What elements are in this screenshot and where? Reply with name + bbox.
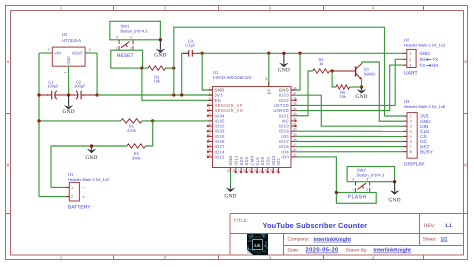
junction dot battery vertical R1 (37, 119, 40, 122)
svg-text:TITLE:: TITLE: (234, 218, 249, 223)
svg-text:3: 3 (89, 48, 91, 52)
wire IO0 to FLASH loop (295, 157, 336, 193)
svg-text:IO2: IO2 (276, 157, 281, 165)
svg-text:39: 39 (265, 77, 269, 81)
wire R3 to 3V3 vertical (166, 67, 174, 69)
svg-text:100µF: 100µF (74, 84, 86, 89)
frame column numbers (60, 5, 375, 260)
ground symbol below C1 C2 junction (68, 95, 70, 106)
svg-text:S8050: S8050 (364, 71, 376, 76)
svg-text:2: 2 (71, 195, 73, 199)
wire RESET down to ESP32 EN (142, 68, 213, 100)
svg-text:InterlinkKnight: InterlinkKnight (314, 237, 352, 243)
svg-text:5: 5 (410, 135, 412, 139)
svg-text:1k: 1k (319, 61, 323, 66)
resistor R1 (121, 119, 142, 123)
wire H1 pin2 to battery plus vertical (39, 196, 65, 198)
U1 left pin names (215, 88, 243, 160)
svg-text:GND: GND (420, 51, 431, 56)
svg-text:4: 4 (352, 178, 354, 182)
svg-text:GND: GND (62, 109, 74, 115)
wire 3V3 feed to H3 pin1 (385, 115, 404, 117)
wire Q1 emitter down (361, 79, 363, 87)
svg-text:IO0: IO0 (281, 154, 289, 159)
junction dot ESP32 pin38 tap (298, 52, 301, 55)
svg-text:1/1: 1/1 (441, 237, 448, 243)
svg-text:GND: GND (85, 155, 97, 161)
svg-text:U2: U2 (62, 32, 68, 37)
capacitor C1 labels (47, 79, 59, 88)
svg-text:6: 6 (410, 140, 412, 144)
resistor R3 (148, 66, 166, 70)
H2 pin numbers (409, 52, 411, 68)
ground symbol Q1 emitter (361, 87, 363, 90)
svg-text:SD2: SD2 (239, 156, 244, 165)
resistor R4 (313, 69, 330, 73)
junction dot 3V3 vertical rail (172, 93, 175, 96)
svg-text:SD1: SD1 (265, 156, 270, 165)
wire U0TXD to H2 pin2 (295, 59, 403, 105)
svg-text:300k: 300k (132, 156, 141, 161)
svg-text:REV:: REV: (424, 223, 435, 229)
svg-text:UART: UART (404, 71, 418, 77)
capacitor C1 polarized (39, 91, 69, 100)
wire base node down to R5 (332, 71, 336, 87)
svg-text:RX: RX (432, 63, 438, 68)
SW1 pin numbers 1 2 (116, 46, 132, 50)
frame row letters (7, 59, 468, 168)
svg-text:2: 2 (410, 120, 412, 124)
H1 pin stubs (65, 187, 69, 196)
logo InterlinkKnight (247, 234, 268, 255)
wire VIN vertical from battery+ to regulator pin 2 (38, 53, 40, 197)
svg-text:2020-05-20: 2020-05-20 (306, 247, 340, 254)
junction dot C3 GND rail (201, 52, 204, 55)
svg-text:IO13: IO13 (233, 155, 238, 166)
svg-text:B: B (7, 163, 10, 168)
wire regulator VIN pin2 (39, 52, 52, 54)
svg-text:4: 4 (209, 102, 211, 106)
svg-text:GND: GND (228, 155, 233, 165)
svg-text:GND: GND (278, 68, 290, 74)
svg-text:Header-Male-2.54_1x8: Header-Male-2.54_1x8 (404, 104, 446, 109)
wire IO18 to H3 CLK (295, 130, 403, 132)
junction dot VOUT rail (95, 93, 98, 96)
H1 pin numbers (71, 186, 73, 199)
svg-text:SD3: SD3 (244, 156, 249, 165)
svg-text:1: 1 (71, 186, 73, 190)
wire IO17 to H3 DC (295, 141, 403, 143)
svg-text:3: 3 (366, 178, 368, 182)
svg-text:TX: TX (432, 57, 438, 62)
company field (288, 237, 352, 243)
svg-text:8: 8 (410, 150, 412, 154)
junction dot RESET to R3 (140, 66, 143, 69)
svg-text:100µF: 100µF (47, 84, 59, 89)
svg-text:7: 7 (410, 145, 412, 149)
resistor R5 (336, 85, 350, 89)
svg-text:Sheet:: Sheet: (423, 237, 437, 243)
svg-text:1: 1 (409, 52, 411, 56)
svg-text:A: A (464, 59, 467, 64)
wire IO5 to H3 CS (295, 135, 403, 137)
svg-text:1: 1 (63, 72, 67, 74)
svg-text:2: 2 (409, 58, 411, 62)
svg-text:ESP32-WROOM-32D: ESP32-WROOM-32D (213, 75, 252, 80)
svg-text:B: B (464, 163, 467, 168)
svg-text:CMD: CMD (249, 155, 254, 165)
ground symbol SW1 (159, 40, 161, 50)
svg-text:EP: EP (266, 89, 271, 95)
op-amp U1 ESP32-WROOM-32D module body (213, 87, 292, 168)
svg-text:3: 3 (410, 125, 412, 129)
wire base node to Q1 base (332, 70, 356, 72)
svg-text:0.1µF: 0.1µF (185, 43, 196, 48)
svg-text:DISPLAY: DISPLAY (404, 161, 425, 167)
wire Q1 collector to H3 pin2 (362, 62, 403, 121)
svg-text:7: 7 (209, 117, 211, 121)
H3 net labels (420, 114, 433, 155)
svg-text:5: 5 (209, 107, 211, 111)
wire GND rail tap to ESP32 pin1 GND (202, 53, 212, 90)
sheet field (423, 237, 448, 243)
svg-text:38: 38 (293, 86, 297, 90)
ground symbol below ESP32 (230, 187, 232, 189)
svg-text:A: A (7, 59, 10, 64)
H2 pin stubs (403, 53, 407, 65)
net wire loop RESET (111, 50, 143, 68)
wire R2 up to divider node (145, 121, 152, 146)
SW2 pin stubs bottom (356, 188, 370, 193)
wire R4 to base (330, 70, 333, 72)
U1 bottom pin names (228, 155, 281, 166)
svg-text:Button_6*6*4.3: Button_6*6*4.3 (357, 172, 385, 177)
U1 left unconnected pin dots (207, 104, 209, 158)
svg-text:2: 2 (366, 188, 368, 192)
svg-text:RESET: RESET (117, 53, 134, 59)
wire GND rail top (202, 52, 407, 54)
svg-text:+: + (82, 194, 85, 199)
wire IO21 to R4 (295, 71, 313, 116)
SW2 pin stubs top (356, 182, 370, 186)
svg-text:8: 8 (209, 122, 211, 126)
svg-text:YouTube Subscriber Counter: YouTube Subscriber Counter (263, 221, 368, 230)
svg-text:1: 1 (352, 188, 354, 192)
svg-text:HT7333-A: HT7333-A (62, 38, 81, 43)
svg-text:Date:: Date: (288, 248, 299, 254)
U1 right unconnected pin dots (294, 99, 296, 127)
junction dot R3 3V3 vertical (172, 66, 175, 69)
U1 right pin names (273, 88, 289, 160)
SW2 pin numbers 4 3 (352, 178, 368, 182)
svg-text:IO12: IO12 (215, 154, 226, 159)
wire IO16 to H3 RST (295, 146, 403, 148)
svg-text:GND: GND (388, 197, 400, 203)
svg-text:10k: 10k (340, 94, 346, 99)
junction dot GND on R2 row (90, 144, 93, 147)
svg-text:Company:: Company: (288, 237, 310, 243)
svg-text:4: 4 (116, 36, 118, 40)
wire H2 pin1 stub to GND rail (403, 52, 407, 54)
svg-text:3: 3 (130, 36, 132, 40)
wire IO23 to H3 DIN (295, 95, 403, 126)
wire battery plus R1 row (39, 120, 121, 122)
junction dot divider node (151, 119, 154, 122)
svg-text:2: 2 (209, 91, 211, 95)
svg-text:470k: 470k (127, 128, 136, 133)
svg-text:SD0: SD0 (260, 156, 265, 165)
SW1 pin stubs top (119, 40, 133, 44)
wire U0RXD to H2 pin3 (295, 65, 403, 111)
svg-text:2: 2 (48, 48, 50, 52)
SW1 actuator (121, 42, 130, 48)
junction dot GND arrow top rail (282, 52, 285, 55)
wire H1 pin1 to GND vertical (51, 186, 65, 188)
junction dot EP (267, 52, 270, 55)
wire RESET to R3 (143, 67, 148, 69)
header H1 body (69, 182, 79, 201)
svg-text:GND: GND (67, 56, 71, 65)
junction dot center GND between C1 C2 (67, 93, 70, 96)
SW2 pin numbers 1 2 (352, 188, 368, 192)
svg-text:6: 6 (209, 112, 211, 116)
voltage regulator U2 body (52, 47, 85, 66)
svg-text:Drawn By:: Drawn By: (346, 248, 368, 254)
wire GND rail tap to ESP32 pin38 (291, 53, 300, 90)
junction dot VIN rail left (37, 93, 40, 96)
header H3 body (407, 113, 417, 159)
junction dot SW1 to ground (159, 38, 162, 41)
SW1 pin numbers 4 3 (116, 36, 132, 40)
wire VOUT down to 3V3 rail (96, 53, 98, 95)
svg-text:4: 4 (410, 130, 412, 134)
svg-text:3: 3 (409, 64, 411, 68)
svg-text:Button_6*6*4.3: Button_6*6*4.3 (121, 29, 149, 34)
wire C3 left from 3V3 rail (182, 53, 189, 95)
H3 pin numbers (410, 115, 412, 155)
svg-text:GND: GND (154, 53, 166, 59)
title block frame (230, 214, 464, 256)
svg-text:10k: 10k (153, 79, 159, 84)
U1 left pin stubs and numbers (207, 86, 213, 157)
svg-text:1.1: 1.1 (445, 223, 452, 229)
wire 3V3 rail to ESP32 pin 3V3 (97, 94, 212, 96)
U1 bottom pin stubs and numbers (227, 168, 279, 173)
wire EP pin from GND rail (268, 53, 270, 86)
svg-text:TX: TX (420, 63, 426, 68)
svg-text:LK: LK (254, 243, 261, 248)
junction dot SW2 to ground (393, 180, 396, 183)
svg-text:BUSY: BUSY (420, 149, 433, 154)
svg-text:Header-Male-2.54_1x3: Header-Male-2.54_1x3 (404, 42, 446, 47)
ground symbol top rail (283, 53, 285, 64)
H3 pin stubs (403, 116, 407, 152)
net label TX-RX at H2 (420, 63, 439, 68)
capacitor C3 (183, 50, 203, 57)
wire GND to R2 row (51, 146, 127, 187)
svg-text:BATTERY: BATTERY (68, 204, 91, 210)
svg-text:Header-Male-2.54_1x2: Header-Male-2.54_1x2 (68, 177, 110, 182)
transistor Q1 S8050 (356, 63, 362, 79)
button SW2 top wire loop (347, 167, 395, 182)
wire R5 to emitter (350, 86, 362, 88)
svg-text:GND: GND (224, 193, 236, 199)
net label RX-TX at H2 (420, 57, 439, 62)
svg-text:1: 1 (410, 115, 412, 119)
U1 right pin stubs and numbers (291, 86, 297, 157)
wire IO4 to H3 BUSY (295, 151, 403, 153)
svg-text:3: 3 (209, 97, 211, 101)
date field (288, 247, 412, 254)
svg-text:FLASH: FLASH (348, 195, 367, 201)
wire divider node to ESP32 IO35 (153, 120, 213, 122)
REV field (424, 223, 452, 229)
junction dot C3 3V3 rail (180, 93, 183, 96)
button SW1 top wire loop (110, 21, 161, 40)
wire regulator VOUT pin3 (85, 52, 97, 54)
capacitor C2 polarized (69, 91, 98, 100)
U1 top pin EP stub and number (265, 77, 269, 87)
svg-text:InterlinkKnight: InterlinkKnight (374, 248, 412, 254)
SW1 pin stubs bottom (119, 46, 133, 50)
svg-text:RX: RX (420, 57, 426, 62)
wire ESP32 bottom GND pin down (230, 172, 232, 188)
svg-text:9: 9 (209, 128, 211, 132)
wire 3V3 vertical and top feed to display header (174, 27, 385, 116)
header H2 body (407, 49, 416, 67)
svg-text:IO15: IO15 (271, 155, 276, 166)
U1 bottom unconnected pin dots (235, 171, 280, 173)
svg-text:VOUT: VOUT (72, 51, 84, 56)
ground symbol battery minus (91, 146, 93, 150)
resistor R2 (127, 144, 145, 148)
svg-text:GND: GND (355, 94, 367, 100)
svg-text:VIN: VIN (54, 51, 61, 56)
svg-text:CLK: CLK (255, 156, 260, 165)
SW2 actuator (357, 183, 366, 189)
junction dot base node (330, 69, 333, 72)
net wire loop FLASH (336, 193, 376, 204)
ground symbol SW2 (394, 182, 396, 192)
junction dot emitter R5 GND (360, 85, 363, 88)
junction dot FLASH loop (335, 191, 338, 194)
wire R1 to junction (142, 120, 153, 122)
capacitor C2 labels (74, 79, 86, 88)
wire regulator GND pin1 down (68, 66, 70, 95)
svg-text:1: 1 (209, 86, 211, 90)
